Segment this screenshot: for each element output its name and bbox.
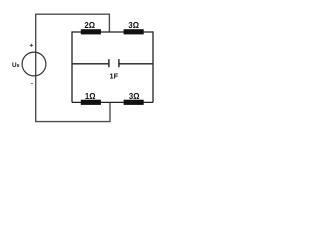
svg-text:1F: 1F	[109, 71, 118, 80]
svg-text:2Ω: 2Ω	[84, 21, 95, 30]
svg-text:1Ω: 1Ω	[85, 92, 96, 101]
svg-text:3Ω: 3Ω	[129, 92, 140, 101]
svg-text:3Ω: 3Ω	[128, 21, 139, 30]
svg-text:s: s	[17, 63, 20, 69]
